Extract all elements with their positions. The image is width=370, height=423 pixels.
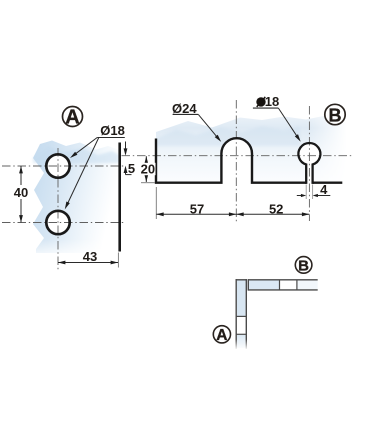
svg-text:20: 20 xyxy=(141,162,155,177)
centerline hole1 horizontal xyxy=(2,165,125,167)
badge A corner xyxy=(213,326,230,344)
centerline panel B horizontal xyxy=(122,155,353,157)
svg-text:52: 52 xyxy=(269,201,283,216)
hole H2 stroke xyxy=(46,211,69,234)
svg-text:43: 43 xyxy=(83,249,97,264)
keyhole stroke xyxy=(298,143,320,184)
svg-text:18: 18 xyxy=(265,94,279,109)
panel B outline xyxy=(156,138,342,183)
badge B top xyxy=(325,104,345,125)
dimension 57 52 xyxy=(156,187,309,219)
svg-text:Ø24: Ø24 xyxy=(172,101,197,116)
dimension 43 xyxy=(58,249,118,268)
svg-text:B: B xyxy=(298,257,309,274)
dimension 4 xyxy=(297,182,331,199)
dimension 40 xyxy=(11,166,31,223)
panel A inner wave xyxy=(33,146,119,163)
notch white fill xyxy=(223,139,251,184)
centerline panel A vertical xyxy=(57,148,59,270)
corner view horizontal bar B xyxy=(248,279,317,291)
hole H1 stroke xyxy=(46,154,69,177)
svg-text:A: A xyxy=(216,327,227,344)
centerline hole2 horizontal xyxy=(2,222,125,224)
label D18 A xyxy=(65,123,125,210)
badge A top xyxy=(63,106,83,128)
panel A edge line xyxy=(118,143,121,252)
svg-text:B: B xyxy=(329,105,342,125)
corner view vertical bar A xyxy=(236,279,248,349)
hole H1 white fill xyxy=(45,153,71,179)
svg-text:A: A xyxy=(65,106,79,128)
hole H2 white fill xyxy=(45,210,71,236)
label D24 xyxy=(172,101,221,142)
panel B glass xyxy=(156,116,347,183)
svg-text:5: 5 xyxy=(128,161,135,176)
dimension 5 xyxy=(124,142,136,177)
panel A glass xyxy=(33,141,119,254)
svg-text:40: 40 xyxy=(14,185,28,200)
keyhole white fill xyxy=(298,143,320,182)
badge B corner xyxy=(295,257,312,275)
centerline slot vertical xyxy=(308,106,310,221)
svg-text:57: 57 xyxy=(190,201,204,216)
svg-text:4: 4 xyxy=(320,182,328,197)
dimension 20 xyxy=(139,156,156,183)
panel B inner wave xyxy=(156,126,300,146)
centerline notch vertical xyxy=(235,100,237,222)
svg-text:Ø18: Ø18 xyxy=(100,123,125,138)
label D18 B xyxy=(253,94,301,142)
